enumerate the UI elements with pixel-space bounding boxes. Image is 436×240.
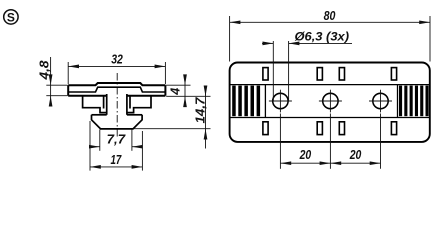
dimension 17 [90, 121, 142, 171]
dimension diameter 6,3 (3x) [262, 41, 352, 101]
foot shelf left [92, 114, 107, 116]
inner bottom edge line [230, 117, 430, 119]
dimension 4,8 [46, 57, 67, 105]
svg-text:7,7: 7,7 [107, 132, 127, 146]
right hook box with step [127, 96, 151, 113]
flange inner underside lines [68, 87, 165, 92]
foot left side and chamfer and bottom [92, 115, 143, 129]
dimension 80 [230, 16, 430, 62]
body outline [230, 63, 430, 142]
left hook box with step [83, 96, 107, 113]
svg-text:4: 4 [169, 88, 183, 96]
hole 2 [319, 90, 342, 113]
dimension 20 right [330, 114, 380, 169]
svg-text:32: 32 [111, 53, 123, 67]
top slots [263, 68, 397, 80]
stem wall left [106, 94, 108, 115]
safety symbol S [4, 10, 18, 25]
serration block left [232, 85, 265, 118]
dimension 4 [166, 75, 210, 107]
svg-text:20: 20 [299, 148, 311, 162]
serration block right [398, 85, 429, 118]
bottom slots [263, 122, 397, 135]
svg-text:20: 20 [349, 148, 361, 162]
dimension 32 [68, 62, 165, 84]
svg-text:S: S [7, 10, 15, 24]
foot shelf right [127, 114, 142, 116]
centerline of section [116, 73, 118, 137]
hole 3 [369, 90, 392, 113]
svg-text:14,7: 14,7 [193, 96, 207, 123]
svg-text:4,8: 4,8 [38, 60, 52, 80]
hole 1 [269, 90, 292, 113]
flange outline with raised plateau [68, 83, 165, 96]
svg-text:80: 80 [324, 9, 336, 23]
svg-text:Ø6,3 (3x): Ø6,3 (3x) [295, 30, 350, 44]
svg-text:17: 17 [111, 153, 123, 167]
stem wall right [126, 94, 128, 115]
dimension 20 left [280, 114, 330, 169]
inner top edge line [230, 84, 430, 86]
dimension 7,7 [90, 130, 142, 151]
dimension 14,7 [134, 86, 211, 149]
